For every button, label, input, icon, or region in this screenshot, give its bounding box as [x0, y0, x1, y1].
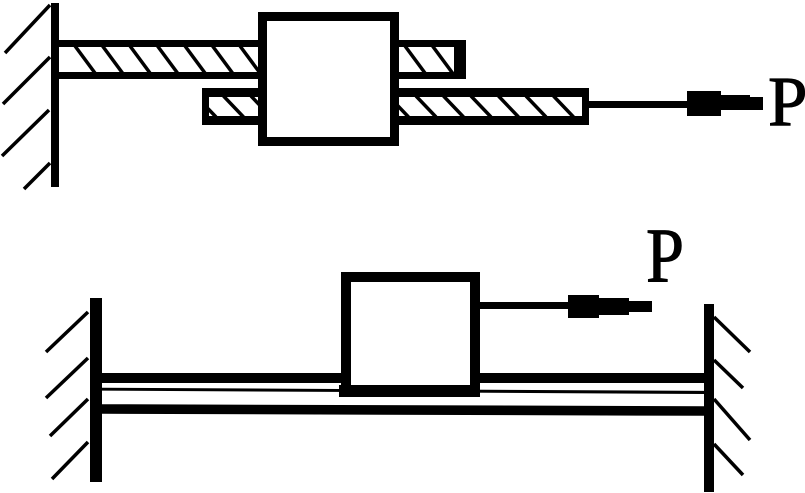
bottom right wall hatch stroke 4 [714, 444, 743, 475]
bottom force arrowhead step 3 [629, 301, 652, 312]
bottom figure: guide rail bottom line [102, 404, 704, 416]
upper bar top edge [59, 40, 466, 47]
bottom figure: guide rail thin middle line [102, 388, 704, 394]
top wall hatch stroke 1 [5, 5, 50, 53]
upper bar bottom edge [59, 72, 466, 79]
bottom block bottom border [339, 385, 480, 397]
bottom right wall hatch stroke 1 [714, 317, 750, 352]
bottom force arrowhead step 1 [568, 295, 599, 318]
bottom left wall hatch stroke 2 [46, 358, 88, 398]
bottom block top border [341, 272, 480, 282]
top wall hatch stroke 2 [3, 57, 50, 104]
bottom left wall hatch stroke 1 [46, 312, 88, 352]
top force arrowhead step 1 [687, 91, 721, 116]
svg-text:P: P [768, 64, 805, 142]
lower bar left end cap [202, 90, 209, 121]
top wall hatch stroke 3 [2, 110, 49, 156]
upper bar hatching [75, 46, 453, 73]
bottom block left border [341, 272, 351, 397]
lower bar bottom edge [202, 116, 589, 125]
upper bar right end cap [454, 40, 466, 79]
bottom force arrowhead step 2 [599, 298, 629, 315]
bottom figure: sliding block fill [341, 272, 480, 397]
lower bar top edge [202, 88, 589, 97]
bottom right wall hatch stroke 2 [714, 360, 743, 388]
bottom left wall hatch stroke 4 [52, 442, 88, 479]
top wall hatch stroke 4 [24, 163, 50, 189]
lower bar hatching [196, 96, 574, 117]
top figure: fixed wall [51, 3, 59, 187]
bottom figure: guide rail top line [102, 373, 704, 383]
lower bar right end cap [582, 88, 589, 125]
bottom figure: right fixed wall [704, 304, 714, 492]
top force arrowhead step 2 [721, 95, 750, 110]
bottom block right border [470, 272, 480, 397]
top force arrow shaft [585, 101, 695, 108]
svg-text:P: P [646, 213, 684, 299]
bottom right wall hatch stroke 3 [714, 399, 750, 440]
bottom figure: left fixed wall [90, 298, 102, 482]
bottom left wall hatch stroke 3 [50, 399, 88, 436]
top figure: sliding block [263, 17, 395, 142]
top force arrowhead step 3 [750, 97, 763, 110]
bottom force arrow shaft [480, 302, 572, 309]
